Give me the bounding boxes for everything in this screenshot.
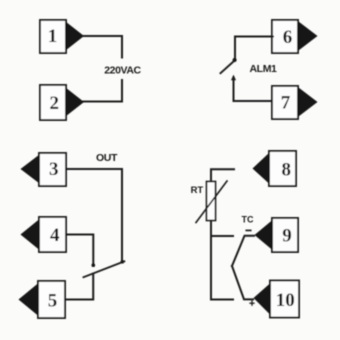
switch blade ALM1 [221,61,234,73]
terminal 4 [39,217,66,252]
thermocouple TC lower lead [232,266,253,299]
terminal 4 arrow [21,219,40,250]
terminal 3 arrow [21,155,40,184]
wire terminal 6 to contact [235,37,273,59]
switch blade OUT [84,261,125,277]
svg-text:9: 9 [282,226,292,247]
terminal 6 arrow [299,22,318,51]
contact dot terminal 4 [92,263,96,267]
wire terminal1 to 220VAC corner [83,36,122,58]
svg-text:10: 10 [276,290,295,311]
svg-text:TC: TC [242,215,254,225]
contact dot ALM1 [233,58,237,62]
wire terminal 4 to contact [66,235,93,264]
wire branch to TC minus [211,235,233,237]
svg-text:2: 2 [50,93,60,114]
terminal 7 [272,86,298,119]
terminal 5 [38,281,65,318]
svg-text:1: 1 [48,26,58,47]
label minus [246,229,250,231]
terminal 7 arrow [299,88,318,117]
svg-text:6: 6 [283,27,293,48]
wire RT top [211,169,234,182]
svg-text:ALM1: ALM1 [250,63,278,75]
terminal 9 arrow [255,220,273,250]
terminal 6 [272,20,298,53]
svg-text:220VAC: 220VAC [104,64,141,76]
terminal 5 arrow [19,283,39,316]
terminal 1 arrow [66,22,85,51]
thermocouple TC upper lead [232,236,254,266]
svg-text:3: 3 [49,159,59,180]
svg-text:5: 5 [48,290,58,311]
wire terminal 7 [234,79,274,102]
svg-text:7: 7 [281,93,291,114]
arrowhead up on terminal 7 wire [231,75,236,81]
terminal 10 arrow [254,283,271,315]
terminal 10 [270,281,299,318]
wire 220VAC to terminal 2 [83,80,122,102]
junction dot on OUT wire [121,260,125,264]
svg-text:RT: RT [191,185,204,196]
thermistor RT [196,181,227,223]
svg-text:OUT: OUT [96,152,118,164]
terminal 1 [40,20,66,53]
terminal 2 arrow [66,88,85,117]
label plus [250,301,254,305]
wire branch to TC plus [211,299,233,301]
terminal 8 arrow [253,153,270,185]
svg-text:4: 4 [50,225,60,246]
wire terminal 3 to switch [66,169,122,261]
terminal 3 [39,153,66,186]
wire terminal 5 to switch pivot [65,274,93,300]
terminal 8 [269,151,296,186]
svg-text:8: 8 [282,160,292,181]
terminal 2 [40,85,66,120]
wire RT bottom vertical [210,221,212,300]
terminal 9 [272,218,298,252]
